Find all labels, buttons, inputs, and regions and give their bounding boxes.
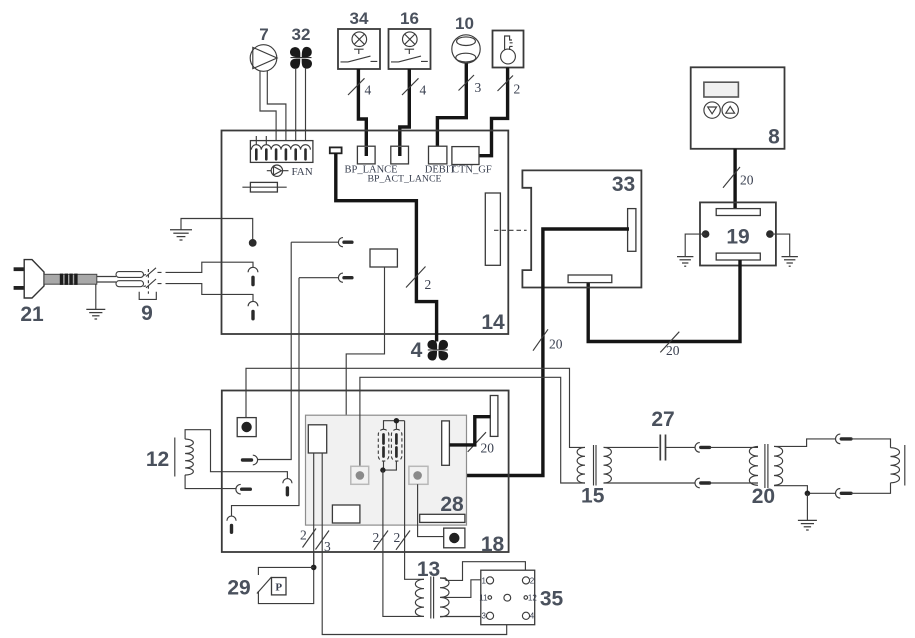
svg-text:21: 21 [20,303,44,326]
arrow conn 2 [227,516,236,521]
slash 20 [660,332,679,353]
black dot square top [237,418,256,437]
connector BP_ACT_LANCE [391,146,409,164]
svg-text:34: 34 [350,9,369,28]
svg-text:12: 12 [146,448,169,471]
relay slot [308,425,326,453]
svg-text:4: 4 [365,83,372,98]
svg-text:3: 3 [482,612,487,621]
svg-text:9: 9 [141,302,153,325]
slash 4 [348,78,365,95]
module 33 [522,170,641,287]
conn B [338,273,343,282]
black dot square bottom [444,528,465,548]
conn bottom [695,478,700,488]
conn C [236,484,241,494]
svg-text:1: 1 [482,576,487,585]
conn right top [835,434,840,444]
primary coil [577,447,585,483]
wire 34 [358,69,366,147]
slash 20 [533,329,548,350]
ground 19 right [770,234,790,257]
slash 3 [316,531,330,550]
sec mid lead [440,580,481,598]
link [258,567,313,575]
core [594,445,597,486]
svg-text:P: P [275,582,282,594]
sec bottom lead [440,616,481,618]
conn A [338,238,343,247]
svg-text:20: 20 [752,485,775,508]
svg-text:28: 28 [440,493,464,516]
slash 20 inner [468,432,486,452]
wire pump to pins [267,71,286,144]
cable [44,274,97,284]
sec bottom lead [604,482,696,484]
svg-text:FAN: FAN [292,166,313,178]
svg-text:4: 4 [530,612,535,621]
slash 4 [402,78,419,95]
conn barC [243,458,252,461]
svg-text:8: 8 [768,126,780,149]
wire sq2 to dot square [418,484,444,536]
right coil [774,446,783,485]
flow meter 10 [452,35,480,63]
thick wire slots [449,417,490,445]
electrode coil [891,448,900,483]
lamp-switch 16 [389,29,431,69]
svg-text:2: 2 [530,576,535,585]
wire temp [465,68,508,156]
wire K1 down jog [346,267,384,505]
svg-text:7: 7 [259,25,268,44]
slot 1 [490,396,498,437]
conn top [695,443,700,453]
left coil [749,446,758,485]
secondary coil [440,578,449,617]
wire from conn A down [258,242,292,459]
wire to t13 primary bottom [383,470,424,616]
board 14 [222,131,509,335]
svg-text:15: 15 [581,485,605,508]
fan 4 [427,340,448,361]
svg-text:29: 29 [227,577,250,600]
primary coil [415,579,424,616]
svg-text:14: 14 [481,311,505,334]
relay box K1 [370,249,397,267]
pcb panel [306,415,467,525]
svg-text:CTN_GF: CTN_GF [452,165,492,176]
conn right bottom [835,489,840,499]
svg-text:12: 12 [528,593,537,602]
crimp bottom [116,281,144,287]
svg-text:35: 35 [540,588,564,611]
header bar [330,147,342,153]
wire right bottom [774,486,836,494]
node dot [805,491,811,497]
slash 3 [459,75,475,91]
gray dot square 1 [351,466,369,484]
core [431,577,434,619]
wire cap to conn [666,446,696,448]
wire B down to arrow conn 2 [232,278,300,516]
control panel 8 [691,67,785,149]
ground board [181,219,253,240]
svg-text:2: 2 [425,277,432,292]
board 18 [222,391,509,553]
svg-text:2: 2 [514,82,521,97]
wire 19 to 33 [588,260,740,342]
svg-text:18: 18 [481,533,505,556]
node earth dot [249,239,257,247]
wire sq1 to transformer15 bottom [360,377,585,483]
lamp-switch 34 [338,29,380,69]
slot 2 [442,421,450,465]
svg-text:20: 20 [740,173,754,188]
capsule bottom node [384,461,397,470]
sec top lead [604,446,659,448]
switch blade [257,577,272,594]
wire 12bottom to connC [185,475,236,489]
relay 19 [700,202,776,265]
svg-text:10: 10 [455,14,474,33]
fan 32 [290,47,312,69]
terminal block J1 [250,141,313,163]
pressure box P [272,578,287,595]
wire L to crimp [97,276,116,278]
temp sensor [493,31,524,68]
svg-text:20: 20 [666,343,680,358]
wire to transformer15 top [246,368,585,447]
wire conn B [299,277,338,279]
svg-text:2: 2 [373,530,380,545]
svg-text:33: 33 [612,173,635,196]
footer box [332,505,360,523]
wire to t13 primary top [405,421,424,580]
wire 16 [400,69,410,147]
svg-text:2: 2 [394,530,401,545]
wire conn A [291,241,338,243]
pins [251,136,310,150]
wire to coil bottom [851,483,891,494]
wire pump to pins [260,71,276,144]
slot J14 [485,193,500,265]
capsule top node [384,421,405,430]
capsule 2 [391,429,402,461]
wire to coil top [851,439,891,448]
connector CTN_GF [452,147,479,165]
slash 20 [723,167,740,188]
svg-text:13: 13 [417,558,440,581]
gray dot square 2 [409,466,428,484]
wires relay down [313,453,315,567]
FAN icon [267,165,289,176]
wire 33 to 28 [432,229,629,514]
core [765,444,768,488]
slash 2 [406,267,426,288]
wire after switch L [158,262,254,272]
svg-text:4: 4 [420,83,427,98]
switch 9 [139,268,156,300]
fuse F1 [250,182,277,192]
ground 20 [806,493,808,520]
wire N to crimp [97,281,116,283]
wire after switch N [158,284,254,302]
wire fan32 [295,68,297,144]
svg-text:3: 3 [475,80,482,95]
wire to t20 bottom [710,482,759,484]
svg-text:3: 3 [324,539,331,554]
connector BP_LANCE [357,146,375,164]
svg-text:11: 11 [479,593,488,602]
plug 21 [14,260,44,298]
crimp top [116,272,144,278]
arrow conn 1 [283,479,292,484]
pump 7 [250,45,277,72]
dashed link [494,229,527,231]
wire to t20 [710,446,759,448]
node dot [311,565,317,571]
wire 10 [437,63,466,156]
slash 2 [498,76,514,92]
svg-text:4: 4 [411,339,423,362]
wire right top [774,439,836,447]
svg-text:20: 20 [481,441,495,456]
ground plug [95,284,97,309]
wire 8 to 19 [733,149,736,210]
secondary coil [604,447,612,483]
svg-text:20: 20 [549,337,563,352]
mains connector L [248,267,258,272]
svg-text:16: 16 [400,9,419,28]
connector bar 28 [420,514,465,522]
svg-text:19: 19 [726,226,749,249]
wire down [258,552,313,604]
svg-text:2: 2 [300,528,307,543]
sec top lead [440,562,525,581]
connector DEBIT [429,146,447,164]
capsule 1 [378,429,389,461]
mains connector N [248,301,258,306]
svg-text:32: 32 [292,25,311,44]
wire fan32 [305,68,307,144]
wire 12top to arrow conn [185,430,287,479]
ground 19 left [685,234,705,257]
core single [904,445,906,486]
inductor 12 [174,438,176,477]
svg-text:27: 27 [651,408,674,431]
thick wire to fan4 [336,153,437,341]
